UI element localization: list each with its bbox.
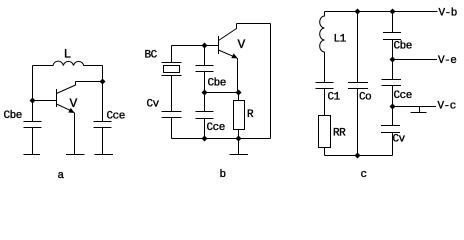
wire: [238, 93, 240, 101]
wire: [324, 89, 326, 116]
wire: [205, 92, 239, 94]
svg-text:V-b: V-b: [439, 8, 457, 20]
svg-text:Cce: Cce: [394, 90, 412, 102]
wire: [172, 138, 271, 140]
wire: [237, 58, 239, 93]
svg-text:Cce: Cce: [207, 122, 225, 134]
junction node V-b: [390, 9, 396, 15]
wire V-e tap: [393, 59, 438, 61]
wire: [392, 133, 394, 156]
svg-text:Co: Co: [359, 92, 371, 104]
junction bottom rail Co: [355, 153, 361, 159]
capacitor Cbe: [383, 33, 401, 40]
svg-text:Cce: Cce: [107, 111, 125, 123]
wire: [172, 45, 219, 47]
svg-text:Cbe: Cbe: [4, 110, 22, 122]
wire: [324, 148, 326, 156]
ground: [230, 139, 249, 155]
junction node V-e: [390, 57, 396, 63]
junction bottom rail: [236, 136, 242, 142]
crystal BC: [162, 63, 182, 76]
wire: [237, 23, 271, 25]
wire: [392, 60, 394, 80]
wire: [102, 66, 104, 122]
inductor L1: [320, 12, 325, 53]
wire: [32, 128, 34, 155]
wire: [270, 24, 272, 139]
svg-text:L1: L1: [334, 34, 347, 46]
svg-text:Cbe: Cbe: [208, 78, 226, 90]
inductor L: [33, 61, 103, 65]
ground: [66, 154, 85, 156]
junction base node: [202, 43, 208, 49]
capacitor Cbe: [24, 122, 42, 128]
wire: [357, 12, 359, 83]
wire: [204, 72, 206, 93]
junction top rail Co: [355, 9, 361, 15]
wire: [324, 52, 326, 83]
wire: [74, 113, 76, 155]
capacitor Cbe: [196, 66, 214, 72]
svg-text:R: R: [247, 109, 254, 121]
capacitor Cce: [382, 80, 402, 86]
wire: [325, 155, 393, 157]
svg-text:L: L: [64, 47, 71, 62]
svg-text:c: c: [361, 169, 367, 181]
capacitor C1: [316, 83, 334, 89]
svg-text:Cv: Cv: [393, 134, 406, 146]
svg-text:V-c: V-c: [438, 101, 456, 113]
wire: [392, 86, 394, 107]
wire: [204, 46, 206, 66]
ground: [411, 107, 427, 113]
capacitor Cv: [381, 126, 400, 133]
wire: [171, 76, 173, 112]
svg-text:RR: RR: [333, 128, 346, 140]
wire: [325, 11, 438, 13]
wire: [392, 12, 394, 33]
wire: [102, 128, 104, 155]
wire: [204, 93, 206, 112]
svg-text:C1: C1: [328, 92, 341, 104]
wire: [76, 81, 103, 83]
wire: [171, 46, 173, 63]
wire: [33, 100, 57, 102]
svg-text:V: V: [238, 37, 246, 52]
capacitor Cv: [162, 112, 182, 118]
resistor R: [234, 101, 245, 130]
resistor RR: [319, 116, 331, 148]
junction bottom rail: [202, 136, 208, 142]
capacitor Co: [348, 83, 368, 89]
junction collector node: [100, 79, 106, 85]
wire V-c tap: [393, 106, 437, 108]
wire: [204, 119, 206, 139]
capacitor Cce: [94, 122, 112, 128]
capacitor Cce: [196, 112, 214, 119]
svg-text:V-e: V-e: [438, 55, 456, 67]
wire: [238, 130, 240, 139]
svg-text:Cbe: Cbe: [394, 41, 412, 53]
wire: [392, 40, 394, 60]
transistor V: [219, 24, 238, 59]
svg-text:BC: BC: [145, 50, 158, 62]
junction node V-c: [390, 104, 396, 110]
junction base node: [30, 98, 36, 104]
wire: [32, 66, 34, 122]
svg-text:b: b: [220, 169, 226, 181]
wire: [392, 107, 394, 126]
svg-text:a: a: [58, 170, 65, 182]
ground: [95, 154, 114, 156]
svg-text:V: V: [70, 96, 78, 111]
junction emitter node: [236, 90, 242, 96]
junction Cbe-Cce node: [202, 90, 208, 96]
transistor V: [57, 82, 76, 114]
ground: [24, 154, 41, 156]
wire: [357, 89, 359, 156]
wire: [171, 118, 173, 139]
svg-text:Cv: Cv: [147, 99, 160, 111]
